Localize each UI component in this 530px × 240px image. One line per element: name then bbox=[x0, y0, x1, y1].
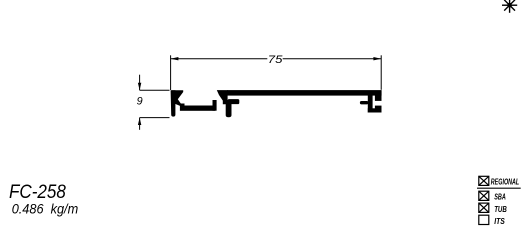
left finger rib bbox=[360, 101, 369, 104]
dimension 9: bottom extension line bbox=[140, 117, 170, 119]
dimension 9: up arrowhead bbox=[138, 118, 141, 125]
svg-text:ITS: ITS bbox=[494, 216, 505, 226]
dimension 9: vertical line lower segment bbox=[139, 118, 141, 130]
checkbox ITS (unchecked) bbox=[479, 215, 489, 224]
left outer bar bbox=[171, 90, 176, 116]
svg-text:9: 9 bbox=[137, 96, 143, 108]
checkbox TUB (checked) bbox=[479, 203, 489, 212]
floor step (right lip of channel) bbox=[213, 100, 217, 111]
channel floor bbox=[180, 106, 215, 111]
screw port bottom arm bbox=[368, 108, 382, 112]
screw port lower right block bbox=[375, 106, 382, 113]
dimension 9: vertical line upper segment bbox=[139, 75, 141, 91]
lower leg of stem bbox=[226, 100, 232, 117]
svg-text:75: 75 bbox=[268, 54, 284, 66]
screw port spine bbox=[368, 96, 373, 113]
svg-text:TUB: TUB bbox=[494, 204, 507, 214]
center wedge + upper stem bbox=[217, 90, 228, 104]
left barb merging into channel ledge bbox=[171, 90, 184, 106]
svg-text:0.486 kg/m: 0.486 kg/m bbox=[12, 201, 79, 217]
dimension 75: extension line right bbox=[380, 55, 382, 90]
screw port upper right block bbox=[375, 96, 382, 101]
dimension 9: down arrowhead bbox=[138, 83, 141, 90]
glazing arm flange bbox=[228, 99, 240, 104]
dimension 75: dimension line with gap for text bbox=[171, 58, 268, 60]
dimension 75: extension line left bbox=[170, 55, 172, 90]
dimension 75: left arrowhead bbox=[171, 57, 179, 60]
dimension 9: top extension line bbox=[140, 89, 170, 91]
checkbox REGIONAL (checked) bbox=[479, 176, 489, 185]
dimension 75: right arrowhead bbox=[373, 57, 381, 60]
svg-text:REGIONAL: REGIONAL bbox=[491, 177, 519, 187]
profile FC-258 cross-section bbox=[171, 90, 382, 117]
main top web bbox=[227, 90, 382, 96]
svg-text:FC-258: FC-258 bbox=[9, 181, 66, 203]
svg-text:SBA: SBA bbox=[494, 192, 506, 202]
asterisk symbol top right bbox=[502, 0, 517, 13]
legend separator line bbox=[477, 187, 521, 189]
checkbox SBA (checked) bbox=[479, 191, 489, 200]
